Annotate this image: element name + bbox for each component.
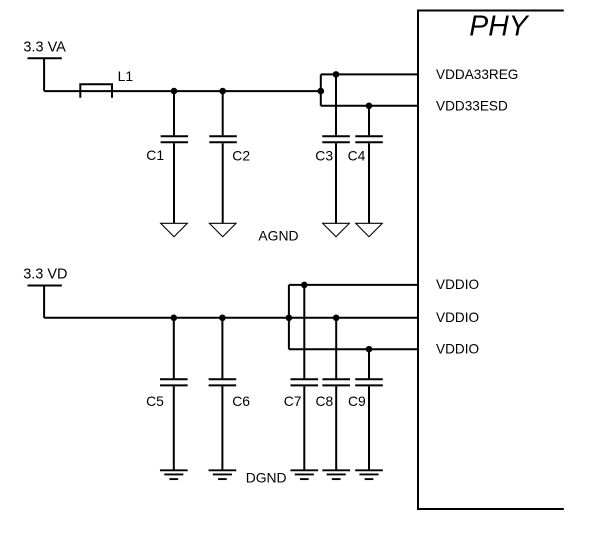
svg-text:C2: C2 bbox=[232, 147, 250, 163]
svg-text:C7: C7 bbox=[284, 393, 302, 409]
svg-text:C3: C3 bbox=[315, 147, 333, 163]
svg-text:C4: C4 bbox=[348, 147, 366, 163]
svg-text:VDDIO: VDDIO bbox=[436, 310, 479, 325]
svg-text:3.3 VA: 3.3 VA bbox=[23, 39, 66, 55]
svg-text:PHY: PHY bbox=[469, 10, 529, 42]
svg-text:DGND: DGND bbox=[246, 470, 287, 486]
svg-text:VDDIO: VDDIO bbox=[436, 277, 479, 292]
svg-text:3.3 VD: 3.3 VD bbox=[23, 266, 67, 282]
svg-text:VDD33ESD: VDD33ESD bbox=[436, 99, 508, 114]
svg-text:C9: C9 bbox=[348, 393, 366, 409]
svg-text:AGND: AGND bbox=[258, 228, 298, 244]
svg-text:L1: L1 bbox=[118, 68, 134, 84]
svg-text:VDDA33REG: VDDA33REG bbox=[436, 67, 518, 82]
svg-text:VDDIO: VDDIO bbox=[436, 342, 479, 357]
svg-text:C5: C5 bbox=[146, 393, 164, 409]
svg-text:C8: C8 bbox=[316, 393, 334, 409]
svg-text:C1: C1 bbox=[146, 147, 164, 163]
svg-text:C6: C6 bbox=[232, 393, 250, 409]
